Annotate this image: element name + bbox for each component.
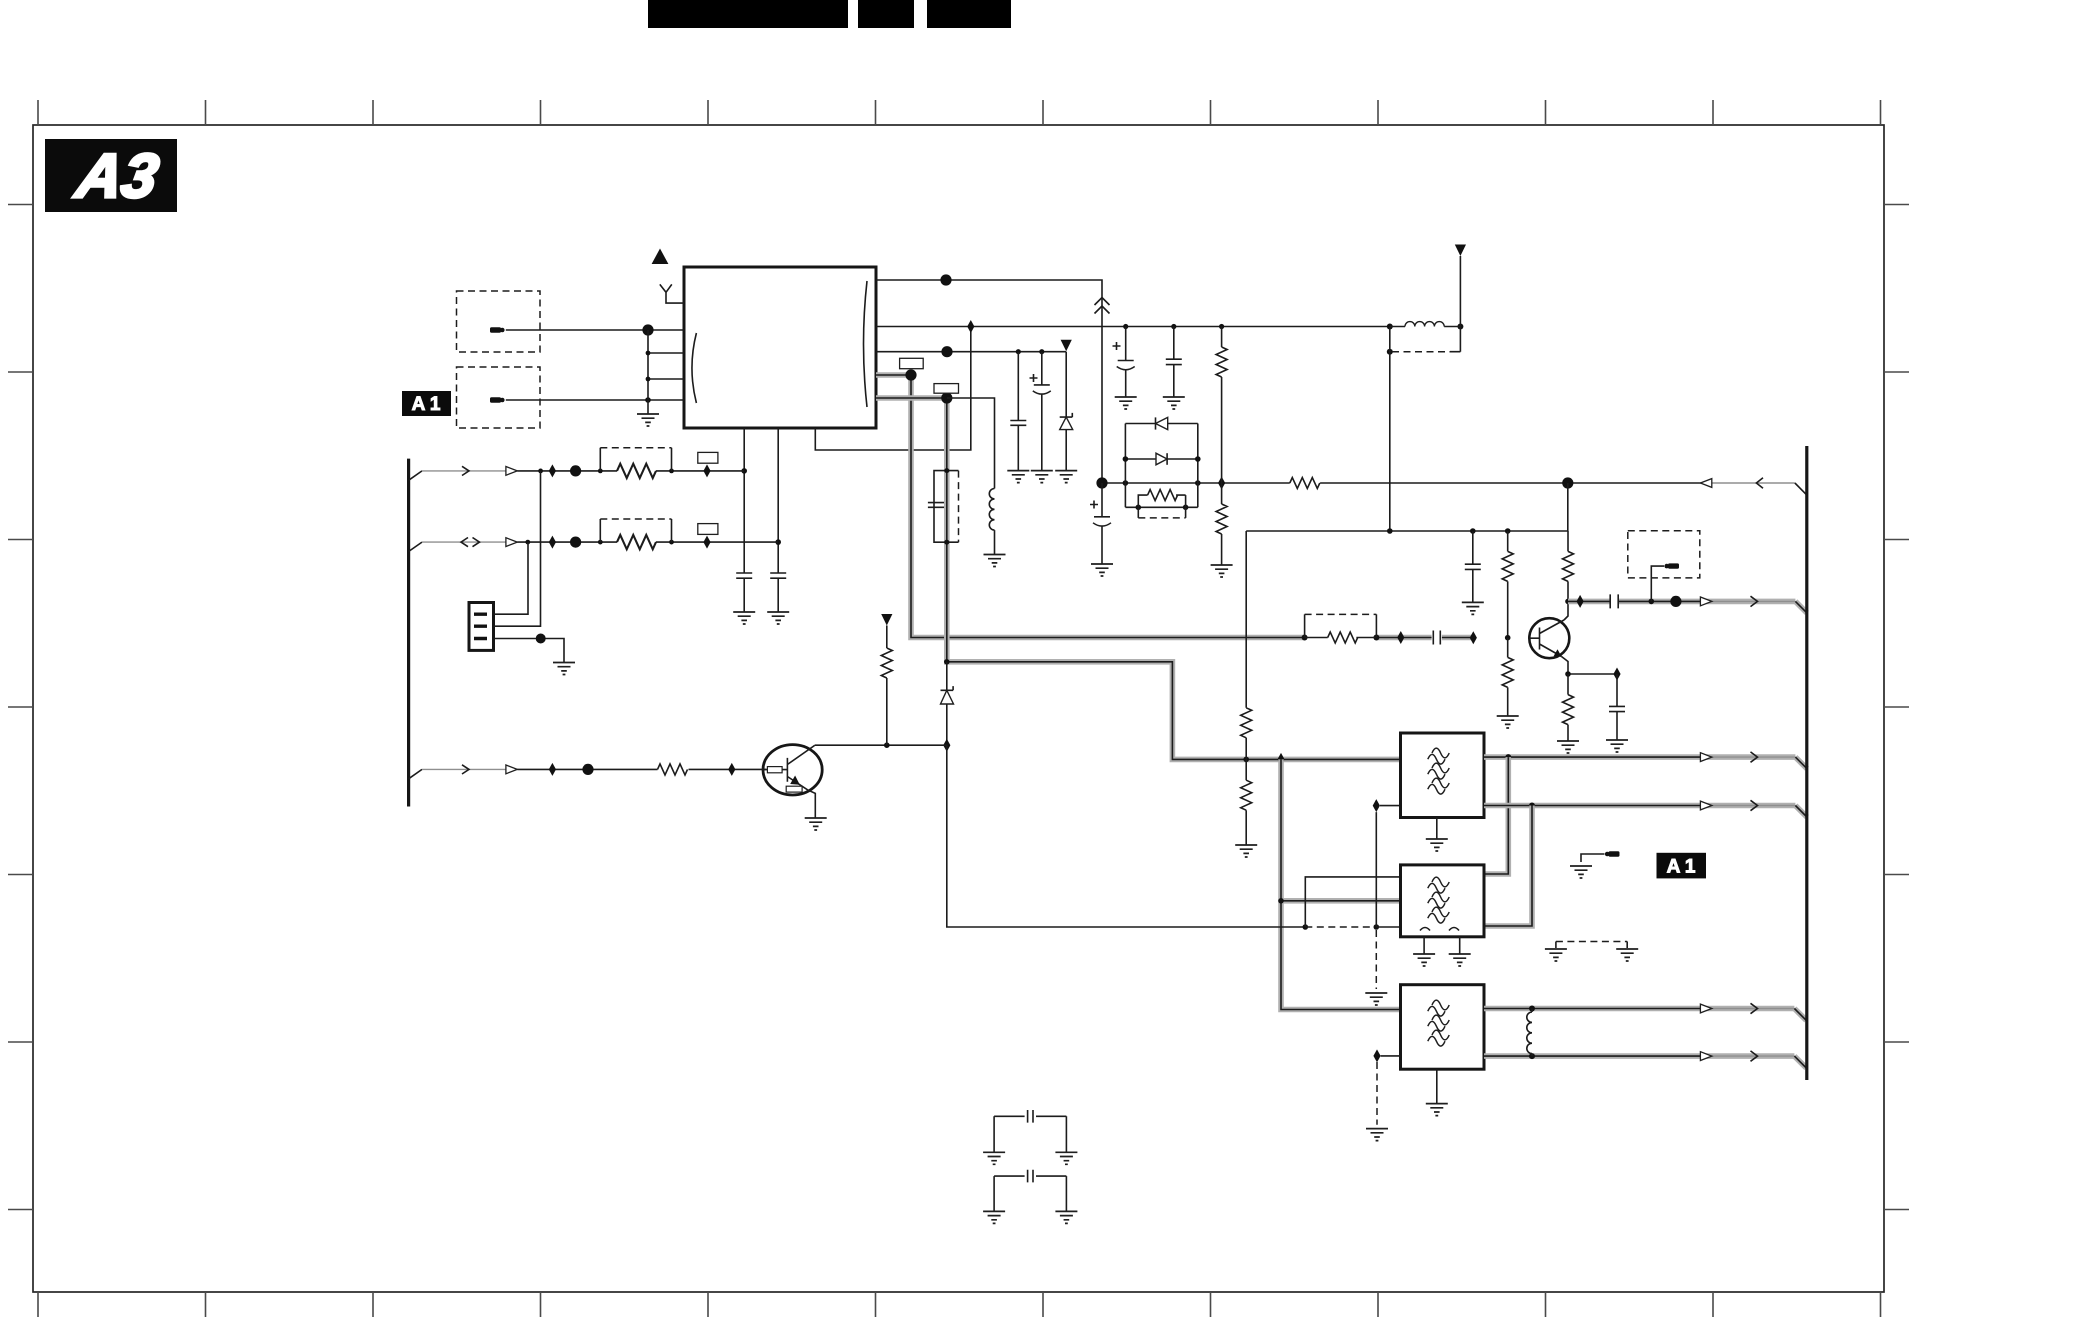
bus OUT2 (F1 upper out) xyxy=(1484,752,1807,769)
wire F2 upper input xyxy=(1305,877,1400,927)
antenna symbol xyxy=(660,284,684,303)
capacitor C8 (series in TB1) xyxy=(1397,631,1477,645)
capacitor C5 (electrolytic) xyxy=(1030,352,1053,483)
net W530 (Q2 bias feed) xyxy=(1246,483,1568,534)
bus OUT5 (F3 lower out) xyxy=(1484,1051,1806,1068)
net F3 lower input xyxy=(1373,1049,1400,1062)
resistor R5 xyxy=(1241,531,1252,759)
left bus bar xyxy=(407,459,410,807)
wire Q1 collector net xyxy=(815,742,1401,929)
ground (Q1 emitter) xyxy=(805,818,827,830)
connector J5 with ground xyxy=(1570,851,1620,878)
bus F2 upper link xyxy=(1484,757,1508,874)
filter F1 xyxy=(1401,733,1485,818)
wire U1 bottom pin 2 xyxy=(775,428,781,573)
wire J2 to U1 xyxy=(506,397,684,403)
reference label A1 (left) xyxy=(402,391,451,416)
net F1 lower input xyxy=(1373,799,1401,927)
capacitor C2 (electrolytic) xyxy=(1113,327,1137,410)
capacitor C7 xyxy=(767,573,789,624)
module X1 (filter can) xyxy=(928,468,959,545)
transistor Q2 xyxy=(1529,601,1569,674)
warning symbol xyxy=(652,249,669,265)
net Q2 emitter xyxy=(1565,668,1620,681)
capacitor C4 xyxy=(1007,352,1029,483)
filter F3 xyxy=(1401,985,1485,1069)
svg-text:A 1: A 1 xyxy=(412,394,441,415)
inductor L1 (ferrite bead) xyxy=(1387,245,1466,532)
dashed ground (F3 input) xyxy=(1366,1062,1388,1141)
resistor R10 xyxy=(658,764,688,775)
bus OUT1 (Q2 collector out) xyxy=(1568,595,1807,613)
transistor Q1 xyxy=(763,745,822,818)
wire IN3 (left entry 3) xyxy=(409,763,767,779)
resistor R6 xyxy=(1235,759,1257,857)
bus OUT4 (F3 upper out) xyxy=(1484,1003,1806,1020)
wire J3 pin3 xyxy=(494,634,576,675)
capacitor C6 xyxy=(733,573,755,624)
connector J2 (dashed module) xyxy=(457,367,541,428)
zener diode D4 xyxy=(941,662,954,752)
resistor R8 (with dashed bypass) xyxy=(600,448,671,478)
bus TB3 (filter feed column) xyxy=(1278,759,1400,1009)
IC U1 xyxy=(684,267,876,428)
supply symbol and resistor R11 xyxy=(881,614,892,745)
wire IN1 (left entry 1) xyxy=(409,464,745,480)
resistor R14 (collector load) xyxy=(1563,531,1574,604)
connector J1 (dashed module) xyxy=(457,291,541,352)
ground (F2 left pin) xyxy=(1413,937,1435,966)
capacitor C11 xyxy=(1606,674,1628,752)
resistor R15 xyxy=(1557,674,1579,753)
bus OUT3 (F1 lower out) xyxy=(1484,800,1807,817)
dashed ground tie (F1/F2 column) xyxy=(1365,930,1387,1005)
zener diode D3 xyxy=(1055,352,1077,483)
node U1 left pin bus xyxy=(646,330,684,400)
svg-text:A 1: A 1 xyxy=(1667,856,1696,877)
dashed ground tie (right) xyxy=(1545,942,1638,962)
wire J3 pin1 xyxy=(494,542,529,614)
capacitor C14 with grounds xyxy=(983,1170,1077,1224)
net W483 (detector line) xyxy=(1096,477,1806,495)
net W326 (wire U1 pin 2 right) xyxy=(876,320,1390,333)
pin header J3 xyxy=(469,603,494,651)
bus TB2 (U1 to filters) xyxy=(876,392,1401,766)
wire U1 bottom pin 1 xyxy=(741,428,747,573)
wire J3 pin2 xyxy=(494,471,541,626)
value box (wire IN2) xyxy=(698,524,718,535)
resistor R4 xyxy=(1290,478,1320,489)
net V280 (top supply wire) xyxy=(876,274,1110,483)
value box (U1 right 1) xyxy=(900,358,924,368)
wire J1 to U1 xyxy=(506,324,684,335)
filter F2 xyxy=(1401,865,1485,937)
net W352 (wire U1 pin 3 right) xyxy=(876,340,1072,358)
resistor R9 (with dashed bypass) xyxy=(600,519,671,549)
capacitor C3 xyxy=(1163,327,1185,410)
ground (F1) xyxy=(1426,818,1448,852)
svg-text:A3: A3 xyxy=(70,141,164,210)
right bus bar xyxy=(1805,446,1808,1080)
bus TB1 (U1 to Q2 base) xyxy=(876,369,1473,640)
capacitor C10 (series) xyxy=(1610,594,1618,608)
capacitor C1 (electrolytic) xyxy=(1090,483,1113,576)
ground (F3) xyxy=(1426,1069,1448,1115)
ground (F2 right pin) xyxy=(1449,937,1471,966)
capacitor C13 with grounds xyxy=(983,1110,1077,1164)
ground (U1 left) xyxy=(637,400,659,426)
wire U1 bottom pin 3 xyxy=(815,327,971,451)
resistor R1 xyxy=(1216,327,1227,484)
wire IN2 (left entry 2) xyxy=(409,536,779,552)
value box (wire IN1) xyxy=(698,452,718,463)
resistor R13 xyxy=(1497,638,1519,728)
resistor R2 xyxy=(1211,483,1233,577)
inductor L3 xyxy=(1527,1009,1532,1057)
capacitor C9 xyxy=(1462,531,1484,614)
diode network (D1 D2 R3) xyxy=(1123,417,1201,518)
resistor R7 (series in TB1, with dashed bypass) xyxy=(1305,614,1377,643)
inductor L2 xyxy=(947,398,1006,567)
value box (U1 right 2) xyxy=(934,384,959,394)
reference label A1 (right) xyxy=(1657,853,1707,879)
resistor R12 xyxy=(1502,531,1513,641)
connector J4 (dashed) xyxy=(1628,531,1700,602)
bus F2 lower link xyxy=(1484,806,1532,927)
